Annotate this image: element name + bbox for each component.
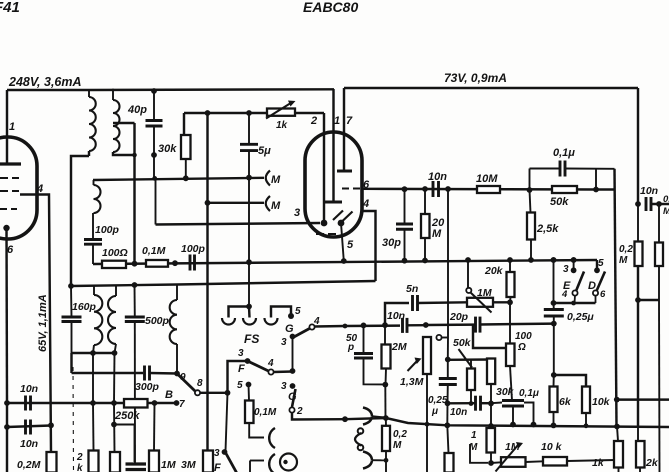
node 500p top: [132, 282, 138, 288]
wire 71 corner: [70, 353, 72, 373]
svg-text:M: M: [393, 440, 402, 451]
wire 114 down: [113, 353, 116, 403]
svg-text:300p: 300p: [135, 381, 160, 393]
svg-text:4: 4: [36, 183, 43, 195]
jack to AF out wire: [372, 416, 386, 417]
svg-text:20k: 20k: [484, 265, 504, 277]
switch B pole 9: [174, 371, 180, 377]
svg-text:20p: 20p: [449, 311, 469, 323]
coil mid winding: [115, 286, 117, 296]
wire V2 pin2: [323, 113, 325, 223]
svg-text:3: 3: [238, 348, 244, 359]
node 20p/ratio: [551, 321, 557, 327]
switch G upper lever: [292, 329, 310, 339]
wire V1 pin6 down: [5, 228, 8, 403]
svg-text:250k: 250k: [114, 410, 140, 422]
svg-text:0,1μ: 0,1μ: [553, 147, 575, 159]
node 40p top: [151, 88, 157, 94]
wire 659 down: [658, 300, 661, 472]
wire V2 pin7: [343, 88, 345, 171]
svg-text:3: 3: [281, 381, 287, 392]
V2 pin5 diode dot: [338, 220, 345, 227]
wire bottom AF/ground rail: [345, 418, 669, 427]
wire 30k bottom: [185, 159, 187, 179]
svg-text:1: 1: [9, 121, 15, 133]
node 0,2M: [48, 422, 54, 428]
capacitor 500p: [134, 285, 136, 317]
wire AVC bus 261: [93, 260, 597, 264]
node M tap: [205, 200, 211, 206]
wire det corner: [155, 179, 157, 225]
capacitor 160p: [70, 286, 73, 317]
node FS: [246, 304, 252, 310]
coil osc winding: [176, 285, 178, 301]
wire to jack: [249, 423, 264, 438]
svg-text:2: 2: [76, 452, 83, 463]
E contact 3: [571, 267, 577, 273]
switch F lever: [248, 361, 269, 371]
svg-text:1M: 1M: [477, 287, 492, 299]
capacitor 0,25u ratio: [553, 303, 555, 310]
resistor 1M left: [149, 451, 159, 472]
svg-text:5n: 5n: [406, 283, 418, 295]
pickup symbol Q: [280, 454, 297, 471]
1,3M wiper: [436, 335, 441, 340]
phones upper jack chevron: [363, 408, 372, 425]
svg-text:6: 6: [7, 244, 14, 256]
wire right bus lower: [637, 266, 639, 427]
switch D lever: [597, 272, 606, 292]
svg-text:100p: 100p: [181, 243, 206, 255]
svg-text:FS: FS: [244, 332, 259, 346]
resistor 0,1M vertical: [248, 385, 251, 401]
svg-text:10n: 10n: [428, 171, 447, 183]
V2 pin3 diode dot: [321, 220, 328, 227]
node 10M/50k: [527, 187, 533, 193]
node 300 right: [635, 297, 641, 303]
V2 diode slashes: [333, 211, 343, 221]
capacitor 10n AF bottom: [24, 420, 27, 435]
wire AF line B: [7, 402, 93, 404]
svg-text:10n: 10n: [450, 407, 467, 418]
resistor 3M: [203, 451, 213, 472]
F lower lever: [226, 454, 237, 472]
svg-text:5: 5: [237, 380, 243, 391]
node 207/113: [205, 110, 211, 116]
wire FS drop: [248, 262, 250, 306]
svg-text:0,25μ: 0,25μ: [567, 311, 594, 323]
E contact 4: [572, 290, 577, 295]
wire 360 row: [448, 358, 491, 361]
svg-text:100p: 100p: [95, 224, 120, 236]
coil 160p winding: [93, 286, 95, 295]
svg-text:10 k: 10 k: [541, 441, 563, 453]
wire G col: [292, 337, 294, 372]
wire to edge: [651, 203, 669, 205]
svg-text:3M: 3M: [181, 459, 196, 471]
wire IFT1 sec bottom: [113, 152, 135, 155]
svg-text:6: 6: [600, 289, 606, 300]
wire long vertical 207: [206, 113, 208, 451]
resistor 0,2M AF: [385, 418, 387, 426]
V2 heater bar pin7: [337, 170, 352, 173]
1M wiper contact: [466, 288, 471, 293]
resistor 1k: [617, 427, 618, 442]
potentiometer 50k: [470, 360, 472, 369]
svg-text:F41: F41: [0, 0, 20, 16]
wire grid column 448: [447, 189, 449, 338]
svg-text:M: M: [271, 200, 281, 212]
capacitor 10n anode: [432, 181, 435, 197]
capacitor 100p series: [189, 255, 192, 271]
osc coupling coil 100p: [94, 185, 101, 213]
wire AF line 2: [7, 426, 51, 428]
wire to 20k node: [493, 301, 510, 303]
wire link 300: [638, 299, 659, 301]
svg-text:B: B: [165, 389, 173, 401]
wire V2 pin4: [362, 211, 376, 281]
node 250k right: [152, 400, 158, 406]
tube V2 envelope: [305, 132, 362, 237]
node right: [656, 201, 662, 207]
node hum pot: [488, 460, 494, 466]
wire 1M box top: [153, 403, 156, 451]
wire 93 down: [92, 353, 94, 403]
wire 5n to 1M rheostat: [418, 301, 468, 304]
svg-text:30p: 30p: [382, 237, 401, 249]
wire anode-diode row 190: [362, 188, 596, 191]
capacitor 0,25u series: [447, 360, 449, 379]
node 30k bottom: [488, 401, 494, 407]
1,3M arrow: [408, 362, 417, 372]
wire screen row 1k: [184, 112, 324, 114]
switch E lever: [576, 272, 584, 292]
node 20M top: [422, 186, 428, 192]
svg-text:3: 3: [294, 207, 300, 219]
svg-text:40p: 40p: [127, 104, 147, 116]
switch G lower lever: [292, 389, 296, 407]
wire G4 right: [315, 325, 346, 328]
wire IFT1 tap: [113, 122, 135, 124]
jack lower: [249, 461, 251, 472]
wire 5n branch: [385, 303, 409, 325]
resistor 30k audio: [487, 359, 495, 385]
wire E/D top row: [596, 260, 598, 270]
resistor 2,5k: [530, 190, 531, 213]
wire to 300p: [72, 372, 144, 374]
resistor 20M: [424, 189, 426, 214]
resistor 250k: [93, 402, 124, 404]
node F4 join: [290, 368, 296, 374]
node 1M col: [488, 423, 494, 429]
capacitor 40p: [153, 91, 155, 121]
resistor 50k: [552, 186, 577, 193]
svg-text:5: 5: [295, 306, 301, 317]
capacitor 50p: [363, 325, 365, 353]
svg-text:μ: μ: [431, 406, 438, 417]
svg-text:F: F: [238, 363, 245, 375]
wire F col down: [226, 393, 228, 451]
svg-text:Ω: Ω: [517, 342, 526, 353]
rheostat 1M: [467, 298, 493, 307]
node 6k/10k top: [551, 372, 557, 378]
wire tuned bottoms 353: [72, 352, 115, 354]
node 50k right: [593, 187, 599, 193]
wire top bus to V2 pin1: [89, 88, 334, 91]
terminal 5 dot: [246, 382, 252, 388]
wire 73V bus: [344, 87, 638, 89]
resistor 30k: [181, 135, 191, 159]
terminal 7: [174, 400, 180, 406]
svg-text:100: 100: [515, 331, 532, 342]
switch B contact 8: [195, 390, 200, 395]
capacitor 10n AF top: [24, 396, 27, 411]
node 250/113: [246, 110, 252, 116]
svg-text:M: M: [619, 255, 628, 266]
wire wiper up: [467, 260, 469, 288]
svg-text:3: 3: [214, 448, 220, 459]
wire down to AF out: [384, 385, 386, 418]
wire G2 to bottom rail: [292, 413, 345, 420]
wire V2 pin1: [332, 89, 334, 202]
G2 contact: [289, 407, 294, 412]
jack (M lower: [266, 196, 270, 211]
node 10n right bus: [635, 201, 641, 207]
svg-text:0,2: 0,2: [393, 429, 407, 440]
resistor 2k left: [92, 403, 95, 451]
capacitor 10n top right: [645, 197, 648, 211]
svg-text:8: 8: [197, 378, 203, 389]
rheostat 1k: [267, 109, 295, 116]
node 20k bottom: [507, 299, 513, 305]
wire output to edge: [617, 398, 669, 400]
D contact 5: [594, 267, 600, 273]
resistor 0.1M: [146, 260, 168, 267]
G lower dot: [290, 383, 296, 389]
svg-text:1M: 1M: [505, 441, 520, 453]
node 5u/det: [246, 175, 252, 181]
svg-text:1: 1: [334, 115, 340, 127]
wire to terminal 7: [155, 402, 177, 404]
node output/1k: [614, 424, 620, 430]
wire detector line to M jack: [93, 178, 264, 180]
wire 248V bus: [7, 89, 89, 91]
wire V1 pin1 drop: [6, 90, 8, 164]
node tap join: [132, 153, 137, 158]
svg-text:6k: 6k: [559, 396, 572, 408]
svg-text:50k: 50k: [550, 196, 569, 208]
svg-text:M: M: [432, 228, 442, 240]
resistor 0,2M left: [47, 452, 57, 472]
svg-text:160p: 160p: [72, 301, 97, 313]
headphones handle symbol: [355, 433, 362, 446]
resistor 2k right: [636, 441, 645, 468]
FS socket cup: [265, 318, 278, 325]
tube V1 envelope: [0, 137, 37, 239]
F lower dot: [222, 449, 228, 455]
wire IFT1 pri bottom: [88, 151, 90, 156]
node 10n right: [445, 186, 451, 192]
svg-text:73V, 0,9mA: 73V, 0,9mA: [444, 71, 507, 85]
svg-text:G: G: [285, 323, 294, 335]
svg-text:50k: 50k: [453, 337, 472, 349]
svg-text:1k: 1k: [276, 120, 288, 131]
G3 dot: [290, 334, 296, 340]
capacitor 300p: [143, 366, 146, 381]
wire 30k link: [470, 444, 488, 463]
V1 grid dashes: [0, 177, 8, 179]
wire 190 to output column: [596, 188, 615, 190]
wire pin6 to bottom: [6, 403, 8, 472]
node AF out: [383, 415, 389, 421]
svg-text:248V, 3,6mA: 248V, 3,6mA: [8, 75, 82, 89]
svg-text:10n: 10n: [20, 383, 38, 395]
svg-text:3: 3: [563, 264, 569, 275]
potentiometer 1,3M: [423, 337, 431, 374]
svg-text:1: 1: [471, 430, 477, 441]
svg-text:7: 7: [179, 399, 185, 410]
V1 cathode dot: [3, 225, 9, 231]
svg-text:5: 5: [598, 258, 604, 269]
D contact 6: [593, 290, 598, 295]
V1 anode bar: [0, 162, 21, 165]
wire to electrolytic: [114, 425, 135, 463]
wire 427 to bottom edge: [426, 424, 428, 472]
switch B lever: [179, 375, 196, 391]
svg-text:M: M: [271, 174, 281, 186]
FS socket arms: [229, 307, 250, 318]
wire to 1k: [567, 460, 615, 461]
wire V2 pin3 line: [156, 223, 321, 225]
node 40p/det: [152, 176, 157, 181]
svg-text:M: M: [663, 206, 669, 217]
wire right bus down: [637, 88, 639, 204]
svg-text:1M: 1M: [161, 459, 176, 471]
wire output column 615: [615, 169, 617, 426]
resistor 20k: [509, 260, 511, 272]
resistor 10k: [554, 375, 586, 387]
node 2M: [382, 322, 388, 328]
svg-text:4: 4: [267, 358, 274, 369]
svg-text:0,1M: 0,1M: [254, 407, 277, 418]
crease mark: [72, 367, 75, 472]
resistor partial right: [655, 243, 663, 267]
svg-text:0,2M: 0,2M: [17, 459, 41, 471]
svg-text:5μ: 5μ: [258, 145, 271, 157]
node 1,3M top: [423, 322, 429, 328]
svg-text:100Ω: 100Ω: [102, 247, 128, 259]
wire V2 pin5 down: [341, 223, 344, 261]
rheostat 1M bottom: [491, 461, 501, 464]
svg-text:0,2: 0,2: [619, 244, 633, 255]
svg-text:F: F: [214, 462, 221, 472]
svg-text:1,3M: 1,3M: [400, 376, 424, 388]
V2 internal dashes: [316, 233, 324, 235]
jack upper: [269, 428, 275, 448]
wire E col: [553, 260, 555, 303]
phones lower jack chevron: [363, 452, 372, 469]
wire to M jack lower: [208, 202, 265, 204]
wire 30k top: [183, 113, 185, 135]
capacitor 5u: [248, 113, 250, 144]
resistor 100ohm: [102, 261, 126, 268]
capacitor 10n af: [448, 402, 475, 405]
svg-text:10n: 10n: [387, 310, 405, 322]
capacitor 30p: [404, 189, 406, 224]
resistor 2M: [384, 325, 386, 344]
wire down to det line: [153, 155, 155, 179]
resistor 6k: [553, 375, 555, 387]
svg-text:10n: 10n: [20, 438, 38, 450]
wire G4 row: [345, 324, 400, 327]
svg-text:7: 7: [346, 115, 353, 127]
svg-text:0,1μ: 0,1μ: [519, 388, 539, 399]
svg-text:10k: 10k: [592, 396, 611, 408]
svg-text:2: 2: [310, 115, 317, 127]
F3 dot: [245, 358, 251, 364]
svg-text:65V, 1,1mA: 65V, 1,1mA: [37, 294, 49, 352]
svg-text:EABC80: EABC80: [303, 0, 358, 15]
resistor under 448: [447, 425, 448, 453]
wire osc line 285: [71, 281, 376, 286]
F4 contact: [268, 369, 273, 374]
node F column: [225, 390, 231, 396]
svg-text:3: 3: [281, 337, 287, 348]
wire 20p tap 348: [473, 325, 505, 348]
node 2M/50p: [382, 382, 388, 388]
resistor 10k bottom: [526, 460, 544, 463]
resistor 1M af: [487, 428, 496, 453]
wire 1,3M bottom: [426, 374, 428, 424]
svg-text:k: k: [77, 463, 83, 472]
capacitor 0,1u af: [491, 402, 502, 405]
resistor mid left: [113, 403, 116, 452]
node 114/424: [111, 422, 117, 428]
wire F4 to G col: [274, 370, 293, 373]
node 50p: [361, 323, 367, 329]
resistor 10M: [477, 186, 500, 193]
wire V1 pin4 down (65V rail): [20, 195, 51, 453]
FS terminal 5: [288, 313, 294, 319]
FS socket cup: [243, 318, 256, 325]
svg-text:10M: 10M: [476, 173, 498, 185]
50k arrow: [459, 349, 473, 368]
svg-text:4: 4: [362, 198, 369, 210]
wire to pot top: [407, 324, 426, 327]
svg-text:10n: 10n: [640, 185, 658, 197]
svg-text:30k: 30k: [158, 143, 177, 155]
svg-text:0,: 0,: [663, 194, 669, 205]
svg-text:2M: 2M: [391, 341, 407, 353]
wire 5u down to AVC bus: [248, 178, 250, 262]
node 160p top: [68, 283, 74, 289]
node tap/avc: [132, 261, 138, 267]
node 10n af: [445, 400, 451, 406]
node 30k/det: [183, 175, 189, 181]
wire IFT1 pri to osc line: [71, 156, 89, 286]
resistor 100ohm AF: [509, 302, 511, 343]
node output tap: [614, 397, 620, 403]
node pin5: [341, 258, 347, 264]
V2 grid bar pin1: [324, 201, 342, 204]
jack (M upper: [266, 171, 270, 186]
capacitor electrolytic bottom: [126, 462, 147, 465]
wire 20p out: [480, 322, 554, 325]
svg-text:2: 2: [296, 406, 303, 417]
wire E/D bottom row: [554, 302, 596, 304]
svg-text:0,1M: 0,1M: [142, 245, 166, 257]
svg-text:30k: 30k: [496, 386, 515, 398]
